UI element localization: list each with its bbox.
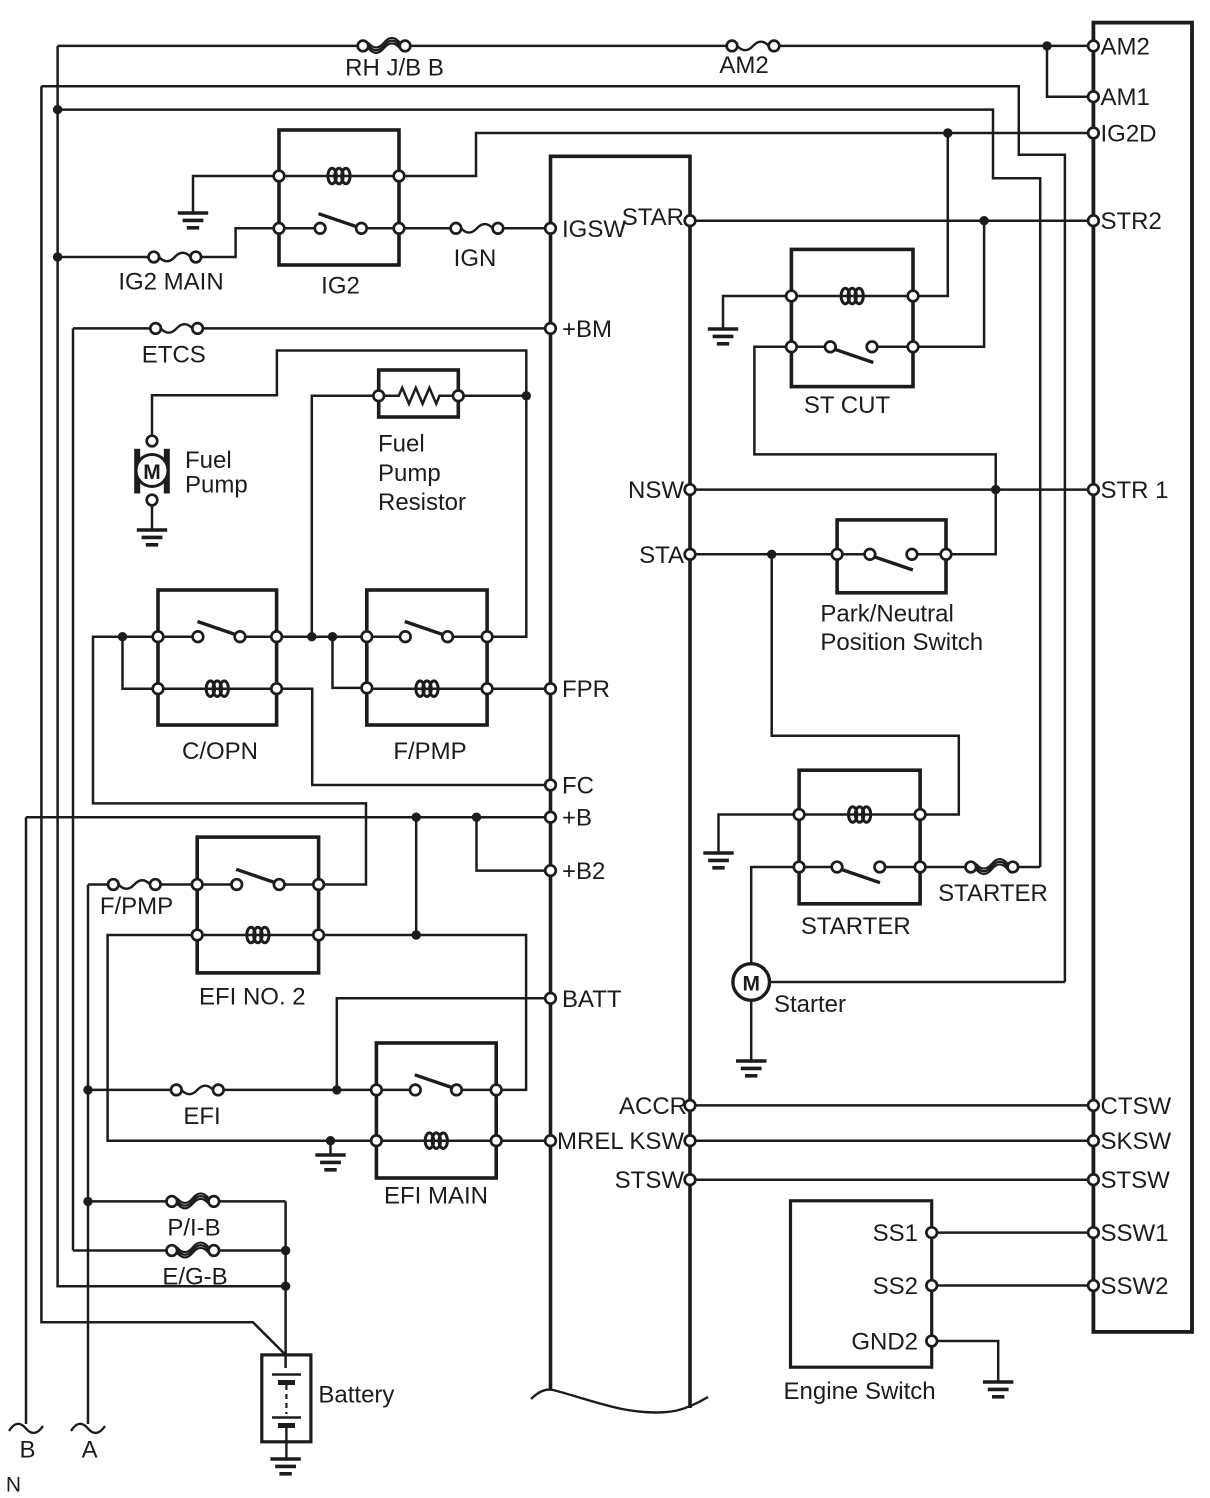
fuse IGN	[451, 223, 504, 234]
wire: Park/Neutral switch output up to NSW junction	[946, 490, 996, 555]
fuse IG2 MAIN	[149, 252, 202, 263]
svg-text:F/PMP: F/PMP	[100, 893, 173, 920]
fusible link STARTER	[966, 859, 1019, 874]
pin ACCR on ECM	[685, 1100, 696, 1111]
svg-text:STAR: STAR	[622, 204, 684, 231]
fuse ETCS	[150, 323, 203, 334]
relay IG2 switch contacts and blade	[274, 223, 285, 234]
svg-text:ETCS: ETCS	[142, 342, 206, 369]
motor M fuel pump	[134, 436, 170, 506]
junction: A-rail to P/I-B fuse line	[83, 1197, 92, 1206]
wire: STARTER relay coil left to ground	[719, 815, 800, 854]
junction: A-rail to EFI fuse line	[83, 1085, 92, 1094]
svg-text:Pump: Pump	[378, 460, 441, 487]
junction: IG2D wire to ST CUT coil	[943, 128, 952, 137]
wire: SS2/SSW2 wire	[932, 1284, 1093, 1287]
pin MREL on ECM	[545, 1135, 556, 1146]
wire: IG2 relay internal coil line	[279, 175, 399, 178]
wire: rail from battery node x58 across top and down right side to STARTER fuse line	[58, 110, 1041, 867]
pin STSW on ignition switch connector	[1088, 1174, 1099, 1185]
relay IG2 coil pins	[274, 171, 285, 182]
wire: EFI NO. 2 relay internal switch contacts line	[197, 883, 318, 886]
wire: EFI NO. 2 coil right over and down to EFI MAIN switch output	[319, 935, 526, 1090]
svg-text:M: M	[742, 973, 760, 996]
svg-text:IGSW: IGSW	[562, 216, 626, 243]
wire: P/I-B fuse line from A-rail to battery vertical	[88, 1200, 286, 1203]
svg-text:Battery: Battery	[318, 1382, 394, 1409]
fuse EFI	[171, 1085, 224, 1096]
junction: pump line to resistor left lead	[307, 632, 316, 641]
junction: C/OPN feed to coil tap	[118, 632, 127, 641]
wire: C/OPN relay internal coil line	[158, 687, 277, 690]
ground (STARTER relay coil)	[703, 853, 733, 868]
pin +B on ECM	[545, 812, 556, 823]
junction: x58 feed line to battery vertical	[281, 1282, 290, 1291]
svg-text:C/OPN: C/OPN	[182, 738, 258, 765]
pin FC on ECM	[545, 780, 556, 791]
wire: GND2 wire to ground	[932, 1341, 999, 1382]
relay C/OPN switch contacts and blade	[153, 631, 164, 642]
fuse F/PMP	[108, 879, 161, 890]
wire: +B2 wire from +B junction to +B2 pin	[477, 817, 551, 870]
svg-text:CTSW: CTSW	[1101, 1093, 1172, 1120]
wire: rail from battery (+) vertical x41 across top and down right side to starter motor line	[41, 86, 1065, 982]
wire: SS1/SSW1 wire	[932, 1231, 1093, 1234]
wire: BATT wire from BATT pin down to EFI fuse line	[337, 998, 551, 1090]
svg-text:ST CUT: ST CUT	[804, 392, 891, 419]
wire: ST CUT relay internal coil line	[791, 295, 913, 298]
svg-text:SS2: SS2	[873, 1273, 918, 1300]
junction: STR2 wire to ST CUT switch	[979, 216, 988, 225]
Fuel Pump Resistor box	[379, 370, 459, 417]
wire: C/OPN relay internal switch contacts line	[158, 635, 277, 638]
relay C/OPN box	[158, 590, 277, 725]
wire: battery feed vertical x58 from AM2 rail down to battery junction line	[58, 46, 286, 1286]
svg-text:+B2: +B2	[562, 858, 605, 885]
Engine Switch box	[791, 1201, 932, 1367]
fusible link RH J/B B	[358, 38, 411, 53]
wire: +B rail vertical x26 down to connector B	[25, 817, 28, 1424]
junction: STA wire to STARTER relay coil	[767, 550, 776, 559]
wire: FC wire from C/OPN relay coil to FC pin	[277, 689, 551, 785]
pin AM1 on ignition switch connector	[1088, 91, 1099, 102]
junction: battery node x58 to lower rail	[53, 105, 62, 114]
motor M starter	[733, 964, 770, 1001]
pin IGSW on ECM	[545, 223, 556, 234]
Fuel Pump Resistor terminal pins	[373, 391, 384, 402]
relay EFI MAIN switch contacts and blade	[371, 1085, 382, 1096]
wire: STA wire from ECU STA pin to Park/Neutral switch	[690, 553, 837, 556]
wire: F/PMP relay internal switch contacts line	[367, 635, 487, 638]
wire: fuel pump resistor right lead to junction	[458, 395, 526, 398]
wire: ST CUT relay internal switch contacts line	[791, 346, 913, 349]
wire: STAR/STR2 wire from ECU STAR pin to STR2 pin	[690, 219, 1093, 222]
junction: EFI NO. 2 coil line to +B drop	[412, 930, 421, 939]
svg-text:Pump: Pump	[185, 472, 248, 499]
svg-text:KSW: KSW	[629, 1128, 684, 1155]
pin +BM on ECM	[545, 323, 556, 334]
junction: EFI fuse line to BATT drop	[332, 1085, 341, 1094]
pin GND2 on Engine Switch	[926, 1336, 937, 1347]
junction: resistor right lead to pump bypass	[522, 391, 531, 400]
svg-text:SSW1: SSW1	[1101, 1220, 1169, 1247]
svg-text:B: B	[19, 1437, 35, 1464]
wire: EFI MAIN relay internal switch contacts line	[376, 1089, 496, 1092]
svg-text:P/I-B: P/I-B	[167, 1215, 220, 1242]
Battery box	[262, 1355, 311, 1442]
junction: +B wire to EFI NO. 2 coil drop	[412, 813, 421, 822]
svg-text:IG2D: IG2D	[1101, 121, 1157, 148]
wire: link C/OPN switch to F/PMP relay switch	[277, 635, 367, 638]
fuse AM2	[727, 41, 780, 52]
wire: battery positive vertical x41 down, right and diagonal to battery post	[41, 86, 285, 1355]
pin NSW on ECM	[685, 484, 696, 495]
wire: ST CUT switch left down to NSW junction	[754, 347, 995, 490]
wire: tap from C/OPN switch line down to C/OPN coil	[123, 637, 159, 689]
svg-text:EFI: EFI	[183, 1103, 220, 1130]
svg-text:BATT: BATT	[562, 986, 622, 1013]
ground (starter motor)	[736, 1061, 766, 1076]
wire: starter motor output wire to right rail	[769, 981, 1065, 984]
wire: EFI NO. 2 relay internal coil line	[197, 934, 318, 937]
relay EFI NO. 2 box	[197, 837, 318, 973]
pin IG2D on ignition switch connector	[1088, 128, 1099, 139]
pin STSW on ECM	[685, 1174, 696, 1185]
svg-text:AM1: AM1	[1101, 84, 1150, 111]
wire: starter motor to ground	[750, 1000, 753, 1061]
pin STR2 on ignition switch connector	[1088, 215, 1099, 226]
ground (ST CUT relay coil)	[708, 329, 738, 344]
relay ST CUT coil pins	[786, 291, 797, 302]
wire: vertical x73 from +BM wire down to E/G-B fuse line	[72, 328, 75, 1250]
wire: +B junction down to EFI NO. 2 coil line	[415, 817, 418, 935]
pin CTSW on ignition switch connector	[1088, 1100, 1099, 1111]
wire: EFI MAIN coil to ground	[329, 1141, 332, 1155]
wire: IG2 relay internal switch contacts line	[279, 227, 399, 230]
pin AM2 on ignition switch connector	[1088, 41, 1099, 52]
svg-text:F/PMP: F/PMP	[393, 738, 466, 765]
ground (engine switch GND2)	[983, 1382, 1013, 1397]
svg-text:SSW2: SSW2	[1101, 1273, 1169, 1300]
ignition switch connector box (right)	[1093, 23, 1192, 1332]
junction: +B wire to +B2 branch	[472, 813, 481, 822]
relay coil C/OPN	[206, 681, 228, 697]
svg-text:STA: STA	[639, 542, 684, 569]
svg-text:MREL: MREL	[557, 1128, 624, 1155]
svg-text:Fuel: Fuel	[378, 431, 425, 458]
relay STARTER box	[799, 770, 920, 904]
svg-text:STSW: STSW	[615, 1167, 685, 1194]
pin FPR on ECM	[545, 683, 556, 694]
svg-text:IG2: IG2	[321, 273, 360, 300]
relay EFI NO. 2 switch contacts and blade	[192, 879, 203, 890]
svg-text:+B: +B	[562, 805, 592, 832]
wire: ACCR/CTSW wire	[690, 1104, 1093, 1107]
svg-text:FPR: FPR	[562, 676, 610, 703]
svg-text:Park/Neutral: Park/Neutral	[820, 601, 953, 628]
svg-text:Position Switch: Position Switch	[820, 629, 983, 656]
wire: jog from AM2 rail junction down to AM1 pin	[1047, 46, 1093, 97]
wire: NSW/STR1 wire from ECU NSW pin to STR 1 pin	[690, 488, 1093, 491]
junction: AM2 rail to AM1 jog	[1042, 41, 1051, 50]
wire: +B wire from ECU +B pin left to x26 rail	[26, 816, 551, 819]
relay F/PMP box	[367, 590, 487, 725]
wire: IGSW wire from IG2 relay switch through IGN fuse to IGSW pin	[399, 227, 551, 230]
pin +B2 on ECM	[545, 865, 556, 876]
svg-text:IG2 MAIN: IG2 MAIN	[118, 269, 223, 296]
wire: fuel pump resistor left lead down to pump feed line	[312, 396, 379, 637]
wire: ST CUT switch right up to STAR/STR2 wire	[913, 221, 984, 347]
pin STAR on ECM	[685, 215, 696, 226]
svg-text:STSW: STSW	[1101, 1167, 1171, 1194]
fusible link E/G-B	[167, 1243, 220, 1258]
svg-text:Fuel: Fuel	[185, 447, 232, 474]
svg-text:AM2: AM2	[1101, 33, 1150, 60]
relay coil EFI NO. 2	[247, 927, 269, 943]
connector break A	[71, 1424, 105, 1433]
connector break B	[9, 1424, 43, 1433]
svg-text:A: A	[82, 1437, 98, 1464]
pin SS2 on Engine Switch	[926, 1280, 937, 1291]
svg-text:SS1: SS1	[873, 1220, 918, 1247]
svg-text:STARTER: STARTER	[938, 880, 1048, 907]
Park/Neutral Position Switch contacts and blade	[832, 549, 843, 560]
pin KSW on ECM	[685, 1135, 696, 1146]
relay F/PMP switch contacts and blade	[362, 631, 373, 642]
wire: C/OPN relay feed down and over to EFI NO. 2 relay switch	[93, 637, 366, 885]
wire: STARTER relay switch left down to starter motor	[751, 867, 799, 964]
fusible link P/I-B	[167, 1193, 220, 1208]
wire: A-rail vertical x88 from F/PMP fuse line down to connector A	[87, 885, 90, 1425]
svg-text:STR2: STR2	[1101, 208, 1162, 235]
ground (IG2 relay coil)	[178, 213, 208, 228]
pin BATT on ECM	[545, 993, 556, 1004]
svg-text:ACCR: ACCR	[619, 1093, 687, 1120]
svg-text:M: M	[143, 461, 161, 484]
relay coil ST CUT	[841, 288, 863, 304]
pin STR 1 on ignition switch connector	[1088, 484, 1099, 495]
wire: battery to ground	[285, 1442, 287, 1459]
wire: STARTER relay internal coil line	[799, 813, 920, 816]
relay EFI MAIN coil pins	[371, 1135, 382, 1146]
wire: F/PMP relay internal coil line	[367, 687, 487, 690]
ECM box torn-edge wavy bottom	[531, 1389, 708, 1412]
svg-text:RH J/B B: RH J/B B	[345, 55, 444, 82]
relay IG2 box	[279, 130, 399, 265]
svg-text:N: N	[6, 1474, 21, 1497]
ground (EFI MAIN relay coil)	[315, 1155, 345, 1170]
svg-text:Engine Switch: Engine Switch	[784, 1378, 936, 1405]
pin SS1 on Engine Switch	[926, 1227, 937, 1238]
svg-text:E/G-B: E/G-B	[162, 1264, 227, 1291]
svg-text:+BM: +BM	[562, 316, 612, 343]
svg-text:SKSW: SKSW	[1101, 1128, 1172, 1155]
wire: F/PMP fuse line from A-rail to EFI NO. 2 relay switch	[88, 883, 197, 886]
wire: EFI fuse line from A-rail to EFI MAIN relay switch	[88, 1089, 376, 1092]
pin STA on ECM	[685, 549, 696, 560]
wire: battery AM2 rail (top) from node at x58 through RH J/B B and AM2 fuses to AM2 pin	[58, 45, 1093, 48]
junction: battery node x58 to IG2 MAIN fuse	[53, 252, 62, 261]
svg-text:Starter: Starter	[774, 991, 846, 1018]
resistor element (Fuel Pump Resistor)	[379, 388, 459, 404]
wire: +BM/ETCS wire through ETCS fuse to +BM pin	[73, 327, 551, 330]
wire: STSW wire	[690, 1178, 1093, 1181]
relay F/PMP coil pins	[362, 683, 373, 694]
ground (fuel pump)	[137, 530, 167, 545]
svg-text:Resistor: Resistor	[378, 489, 466, 516]
relay C/OPN coil pins	[153, 683, 164, 694]
relay coil STARTER	[849, 807, 871, 823]
junction: EFI MAIN coil line to ground	[326, 1136, 335, 1145]
svg-text:GND2: GND2	[851, 1329, 918, 1356]
junction: E/G-B line to battery vertical	[281, 1246, 290, 1255]
relay ST CUT switch contacts and blade	[786, 342, 797, 353]
wire: MREL wire from EFI NO. 2 coil down to EFI MAIN coil and MREL pin	[108, 935, 551, 1141]
relay coil IG2	[328, 168, 350, 184]
wire: FPR wire from F/PMP relay coil to FPR pin	[487, 687, 550, 690]
junction: NSW wire to ST CUT / Park-Neutral switch	[991, 485, 1000, 494]
relay EFI MAIN box	[376, 1043, 496, 1178]
wire: IG2 relay coil to ground	[193, 176, 279, 213]
ECM connector box (center) with torn-edge bottom	[551, 156, 691, 1408]
wire: IG2D wire from IG2 relay coil to IG2D pin	[399, 133, 1093, 176]
wire: Park/Neutral switch internal contacts line	[837, 553, 946, 556]
wire: fuel pump to ground	[151, 500, 154, 530]
wire: fuel pump feed from pump over resistor to F/PMP relay switch	[152, 351, 526, 637]
pin SKSW on ignition switch connector	[1088, 1135, 1099, 1146]
svg-text:EFI NO. 2: EFI NO. 2	[199, 984, 306, 1011]
wire: ST CUT coil right to IG2D wire junction	[913, 133, 948, 296]
relay coil F/PMP	[416, 681, 438, 697]
relay EFI NO. 2 coil pins	[192, 930, 203, 941]
relay ST CUT box	[791, 249, 913, 386]
ground (battery)	[270, 1459, 300, 1474]
svg-text:FC: FC	[562, 773, 594, 800]
svg-text:NSW: NSW	[628, 477, 684, 504]
wire: STA junction down to STARTER relay coil	[772, 554, 959, 814]
wire: tap down to F/PMP relay coil	[333, 637, 367, 688]
wire: battery positive vertical to battery post	[284, 1201, 287, 1368]
wire: KSW/SKSW wire	[690, 1139, 1093, 1142]
wire: ST CUT coil left to ground	[723, 296, 791, 329]
relay STARTER switch contacts and blade	[794, 862, 805, 873]
svg-text:AM2: AM2	[719, 52, 768, 79]
battery cell symbol	[272, 1375, 301, 1442]
relay coil EFI MAIN	[425, 1133, 447, 1149]
wire: IG2 MAIN fuse line from battery node x58 to IG2 relay switch	[58, 228, 279, 257]
wire: STARTER relay internal switch contacts line	[799, 866, 920, 869]
wire: EFI MAIN relay internal coil line	[376, 1139, 496, 1142]
wire: STARTER relay switch right through STARTER fuse to rail	[920, 866, 1040, 869]
svg-text:EFI MAIN: EFI MAIN	[384, 1183, 488, 1210]
svg-text:STARTER: STARTER	[801, 913, 911, 940]
svg-text:STR 1: STR 1	[1101, 477, 1169, 504]
pin SSW2 on ignition switch connector	[1088, 1280, 1099, 1291]
relay STARTER coil pins	[794, 809, 805, 820]
pin SSW1 on ignition switch connector	[1088, 1227, 1099, 1238]
junction: pump line to F/PMP coil tap	[328, 632, 337, 641]
svg-text:IGN: IGN	[454, 245, 497, 272]
Park/Neutral Position Switch box	[837, 520, 946, 593]
wire: E/G-B fuse line to battery vertical	[73, 1249, 286, 1252]
